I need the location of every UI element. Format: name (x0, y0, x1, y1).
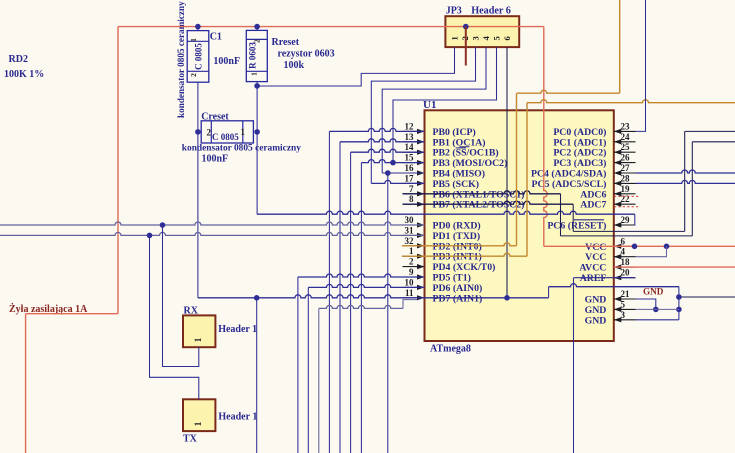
wire U1 pin 4 to VCC (636, 246, 667, 256)
wire PB2 net (350, 152, 352, 453)
connector JP3 Header 6 body (445, 16, 519, 47)
junction VCC at U1 pin 6 (632, 244, 638, 250)
wire JP3 pin 5 to PB3 MOSI (393, 47, 497, 163)
wire PD6 AIN0 net (307, 287, 309, 453)
svg-text:1: 1 (450, 36, 460, 40)
svg-text:1: 1 (189, 38, 198, 42)
svg-text:Header 1: Header 1 (218, 412, 257, 423)
svg-text:5: 5 (621, 299, 626, 309)
junction VCC at JP3 pin 2 (463, 24, 469, 30)
svg-text:16: 16 (405, 163, 415, 173)
svg-text:18: 18 (621, 257, 631, 267)
svg-text:PD3 (INT1): PD3 (INT1) (433, 252, 482, 263)
svg-text:RD2: RD2 (9, 54, 28, 65)
svg-text:3: 3 (471, 36, 481, 40)
connector TX Header 1 body (183, 399, 215, 431)
svg-text:6: 6 (502, 36, 512, 41)
svg-text:TX: TX (183, 434, 198, 445)
wire PB1 net (339, 142, 341, 453)
connector RX Header 1 body (183, 315, 215, 347)
svg-text:PD6 (AIN0): PD6 (AIN0) (433, 283, 483, 294)
wire PD7 branch net (318, 308, 320, 453)
svg-text:1: 1 (250, 72, 259, 76)
junction PB3 at JP3 riser (390, 160, 396, 166)
wire RXD net (0, 222, 425, 225)
wire JP3 pin 2 stub (465, 27, 467, 66)
svg-text:1: 1 (409, 246, 414, 256)
svg-text:1: 1 (193, 421, 203, 426)
svg-text:PB2 (SS/OC1B): PB2 (SS/OC1B) (433, 148, 499, 159)
svg-text:10: 10 (405, 277, 415, 287)
junction GND right 2 (676, 307, 682, 313)
wire GND drop to bottom edge (256, 298, 258, 453)
svg-text:22: 22 (621, 194, 631, 204)
junction GND drop to bottom (254, 295, 260, 301)
svg-text:PC2 (ADC2): PC2 (ADC2) (553, 148, 606, 159)
wire JP3 pin 6 GND drop (506, 47, 508, 298)
wire C1 top stub (197, 27, 199, 31)
U1 left pin stubs, arrows and pin numbers (403, 130, 425, 132)
junction GND right 1 (676, 294, 682, 300)
svg-text:PC5 (ADC5/SCL): PC5 (ADC5/SCL) (532, 179, 607, 190)
svg-text:ADC7: ADC7 (580, 200, 606, 211)
svg-text:GND: GND (585, 305, 607, 316)
svg-text:9: 9 (409, 267, 414, 277)
wire VCC power rail (118, 26, 544, 28)
svg-text:1: 1 (193, 337, 203, 342)
wire RX header net (163, 225, 199, 367)
svg-text:3: 3 (621, 310, 626, 320)
svg-text:31: 31 (405, 225, 415, 235)
svg-text:21: 21 (621, 289, 631, 299)
svg-text:PC6 (RESET): PC6 (RESET) (547, 221, 606, 232)
svg-text:GND: GND (643, 287, 664, 297)
wire TX header net (150, 235, 199, 399)
junction RESET at Creset pin 1 (254, 129, 260, 135)
svg-text:Rreset: Rreset (272, 37, 300, 48)
junction GND at JP3 pin 6 drop (504, 295, 510, 301)
svg-text:RX: RX (184, 306, 199, 317)
svg-text:PD4 (XCK/T0): PD4 (XCK/T0) (433, 262, 496, 273)
svg-text:Header 1: Header 1 (218, 324, 257, 335)
svg-text:26: 26 (621, 153, 631, 163)
svg-text:AVCC: AVCC (579, 263, 606, 274)
junction TXD at TX riser (147, 233, 153, 239)
svg-text:PC0 (ADC0): PC0 (ADC0) (553, 127, 606, 138)
ERC marks under ADC6/ADC7 pins (614, 195, 640, 197)
wire ADC0 net up (636, 0, 646, 131)
svg-text:VCC: VCC (585, 252, 606, 263)
svg-text:1: 1 (241, 127, 246, 137)
svg-text:AREF: AREF (580, 273, 607, 284)
junction VCC at C1 (195, 24, 201, 30)
svg-text:PB6 (XTAL1/TOSC1): PB6 (XTAL1/TOSC1) (433, 189, 525, 200)
svg-text:GND: GND (585, 315, 607, 326)
U1 right pin stubs, arrows and pin numbers (614, 130, 636, 132)
svg-text:30: 30 (405, 215, 415, 225)
svg-text:kondensator 0805 ceramiczny: kondensator 0805 ceramiczny (182, 144, 301, 154)
svg-text:rezystor 0603: rezystor 0603 (278, 49, 335, 60)
svg-text:14: 14 (405, 142, 415, 152)
svg-text:100k: 100k (284, 60, 305, 71)
wire XTAL1 net (403, 191, 561, 194)
svg-text:12: 12 (405, 121, 415, 131)
wire XTAL2 net (403, 201, 574, 204)
wire JP3 pin 4 to PB4 MISO (382, 47, 486, 173)
wire AVCC (614, 266, 735, 268)
svg-text:PB7 (XTAL2/TOSC2): PB7 (XTAL2/TOSC2) (433, 200, 525, 211)
wire PB3 net (360, 163, 362, 453)
wire C1 bottom to GND run (197, 82, 199, 298)
wire TXD net (0, 232, 425, 235)
svg-text:29: 29 (621, 215, 631, 225)
svg-text:C 0805: C 0805 (194, 43, 204, 70)
svg-text:PB1 (OC1A): PB1 (OC1A) (433, 137, 486, 148)
wire GND net run to U1 (198, 295, 549, 298)
svg-text:PD2 (INT0): PD2 (INT0) (433, 241, 482, 252)
capacitor C1 body (187, 31, 209, 83)
svg-text:2: 2 (189, 73, 198, 77)
wire JP3 pin 1 to RESET (257, 47, 454, 86)
svg-text:23: 23 (621, 121, 631, 131)
svg-text:JP3: JP3 (446, 6, 462, 17)
svg-text:25: 25 (621, 142, 631, 152)
svg-text:R 0603: R 0603 (248, 42, 258, 69)
junction PB4 branch (385, 170, 391, 176)
wire INT0 olive net (402, 243, 517, 246)
svg-text:4: 4 (621, 247, 626, 257)
wire U1 pin 21 GND (636, 299, 656, 309)
svg-text:ATmega8: ATmega8 (430, 344, 471, 355)
svg-text:7: 7 (409, 184, 414, 194)
wire SCL net (636, 180, 735, 183)
svg-text:VCC: VCC (585, 242, 606, 253)
svg-text:11: 11 (405, 288, 414, 298)
svg-text:Header 6: Header 6 (471, 5, 511, 16)
wire PD5 T1 net (297, 277, 299, 453)
wire Rreset top stub (256, 27, 258, 31)
svg-text:PB5 (SCK): PB5 (SCK) (433, 179, 480, 190)
junction VCC at Rreset (254, 24, 260, 30)
junction GND at Creset pin 2 (195, 129, 201, 135)
wire SDA net (636, 170, 735, 173)
svg-text:6: 6 (621, 236, 626, 246)
svg-text:PD7 (AIN1): PD7 (AIN1) (433, 293, 483, 304)
wire PB0 net (328, 131, 330, 453)
svg-text:Creset: Creset (201, 111, 229, 122)
svg-text:kondensator 0805 ceramiczny: kondensator 0805 ceramiczny (176, 1, 186, 118)
svg-text:PB3 (MOSI/OC2): PB3 (MOSI/OC2) (433, 158, 508, 169)
svg-text:ADC6: ADC6 (580, 189, 606, 200)
svg-text:17: 17 (405, 173, 415, 183)
wire GND to right edge (679, 296, 735, 298)
IC U1 ATmega8 body (425, 110, 614, 341)
wire U1 pin 5 GND (636, 308, 679, 310)
svg-text:20: 20 (621, 268, 631, 278)
svg-text:PD0 (RXD): PD0 (RXD) (433, 221, 481, 232)
svg-text:4: 4 (481, 36, 491, 41)
junction RESET at Rreset (254, 83, 260, 89)
wire JP3 pin 3 to PB5 SCK (371, 47, 475, 183)
svg-text:8: 8 (409, 194, 414, 204)
capacitor Creset body (201, 121, 253, 143)
svg-text:PB0 (ICP): PB0 (ICP) (433, 127, 476, 138)
svg-text:100nF: 100nF (202, 154, 229, 165)
svg-text:2: 2 (253, 39, 262, 43)
svg-text:19: 19 (621, 184, 631, 194)
resistor Rreset body (246, 30, 267, 81)
svg-text:100nF: 100nF (213, 56, 240, 67)
wire Rreset bottom RESET run (256, 86, 258, 214)
svg-text:PB4 (MISO): PB4 (MISO) (433, 169, 486, 180)
svg-text:GND: GND (585, 295, 607, 306)
svg-text:C1: C1 (210, 31, 222, 42)
svg-text:100K 1%: 100K 1% (4, 69, 44, 80)
wire INT1 olive net (402, 253, 527, 256)
svg-text:U1: U1 (423, 99, 436, 111)
svg-text:24: 24 (621, 132, 631, 142)
svg-text:PD1 (TXD): PD1 (TXD) (433, 231, 481, 242)
svg-text:15: 15 (405, 153, 415, 163)
wire PB4 drop to bottom (387, 173, 389, 453)
svg-text:2: 2 (207, 128, 212, 138)
svg-text:13: 13 (405, 132, 415, 142)
svg-text:PC3 (ADC3): PC3 (ADC3) (553, 158, 606, 169)
svg-text:PC1 (ADC1): PC1 (ADC1) (553, 137, 606, 148)
svg-text:27: 27 (621, 163, 631, 173)
svg-text:5: 5 (492, 36, 502, 40)
junction VCC at pin 4 riser (664, 244, 670, 250)
svg-text:PD5 (T1): PD5 (T1) (433, 273, 471, 284)
svg-text:28: 28 (621, 173, 631, 183)
svg-text:2: 2 (409, 257, 414, 267)
wire AREF net (574, 277, 636, 279)
junction RXD at RX riser (160, 222, 166, 228)
junction GND pin5 (653, 307, 659, 313)
svg-text:PC4 (ADC4/SDA): PC4 (ADC4/SDA) (531, 169, 606, 180)
wire RESET net to U1 pin 29 (257, 211, 635, 214)
svg-text:32: 32 (405, 236, 415, 246)
svg-text:C 0805: C 0805 (212, 132, 239, 142)
